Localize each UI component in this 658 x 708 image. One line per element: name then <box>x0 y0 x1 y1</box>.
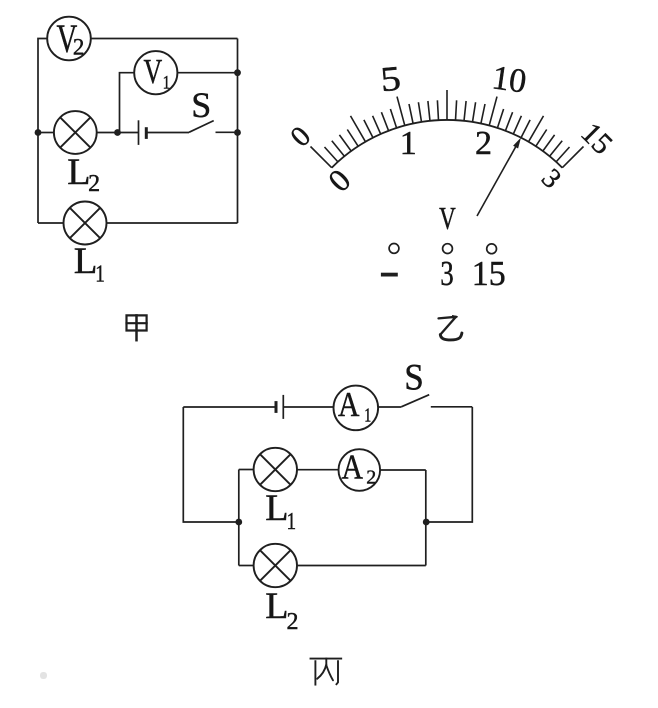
faint scan smudge (decorative) <box>40 672 47 679</box>
label minus terminal <box>381 273 398 277</box>
svg-text:5: 5 <box>379 59 402 100</box>
terminal post (3V) <box>443 244 453 254</box>
svg-text:2: 2 <box>366 467 376 489</box>
svg-text:V: V <box>439 201 456 237</box>
scale label outer 10 <box>490 59 529 100</box>
svg-text:L: L <box>74 241 98 282</box>
label L1 (bing) <box>265 488 296 534</box>
wire: V1 left lead down to mid row <box>120 73 135 133</box>
meter needle <box>477 138 521 217</box>
meter scale tick marks <box>311 90 584 168</box>
terminal post (15V) <box>487 244 497 254</box>
wire: mid row left rail to L2 <box>38 132 54 134</box>
wire: V1 right lead to right rail <box>177 72 237 74</box>
svg-text:L: L <box>67 152 90 192</box>
scale label outer 5 <box>379 59 402 100</box>
scale label inner 3 <box>535 163 567 195</box>
wire: L1 to A2 <box>297 469 339 471</box>
meter scale arc baseline <box>332 120 563 168</box>
wire: jia bottom rail left of L1 <box>38 222 64 224</box>
battery cell (jia): short thick plate <box>145 127 148 139</box>
ammeter A1 <box>334 386 379 431</box>
wire: jia left rail with corners <box>38 39 47 224</box>
switch S (bing): blade <box>401 395 429 407</box>
svg-text:V: V <box>144 53 163 92</box>
wire: jia bottom rail right of L1 <box>107 222 238 224</box>
svg-text:3: 3 <box>440 254 453 293</box>
battery cell (bing): long plate <box>282 395 284 419</box>
wire: L2 row left stub <box>239 565 254 567</box>
wire: battery to switch <box>146 132 189 134</box>
wire: L2 to battery <box>97 132 139 134</box>
switch S (jia): contact segment <box>216 131 238 133</box>
label L1 (jia) <box>74 241 105 287</box>
node: junction dot right (bing) <box>423 519 430 526</box>
wire: battery to ammeter A1 <box>283 406 333 408</box>
svg-text:1: 1 <box>400 125 417 162</box>
svg-text:2: 2 <box>88 171 100 197</box>
svg-text:1: 1 <box>364 404 371 426</box>
svg-text:15: 15 <box>472 254 506 293</box>
label V unit <box>439 201 456 237</box>
wire: bing inner left vertical <box>238 470 240 566</box>
terminal post (minus) <box>389 244 399 254</box>
label L2 (bing) <box>265 586 298 634</box>
voltmeter V2 <box>47 16 91 61</box>
svg-text:S: S <box>191 85 211 125</box>
label 15 terminal <box>472 254 506 293</box>
svg-text:2: 2 <box>475 125 492 162</box>
svg-text:A: A <box>342 448 364 487</box>
lamp L2 <box>54 111 97 154</box>
label L2 (jia) <box>67 152 100 197</box>
svg-text:10: 10 <box>490 59 529 100</box>
wire: bing inner right vertical <box>425 470 427 566</box>
lamp L1 (bing) <box>254 448 297 491</box>
scale label outer 0 <box>284 120 317 153</box>
caption JIA character <box>127 315 147 340</box>
node: junction dot mid row / right rail <box>234 129 241 136</box>
switch S (jia): blade <box>189 121 214 133</box>
lamp L1 <box>64 202 107 245</box>
switch S (bing): contact segment <box>431 406 473 408</box>
svg-text:S: S <box>404 356 424 397</box>
caption BING character <box>311 659 342 685</box>
caption YI character <box>439 316 462 340</box>
node: junction dot left (bing) <box>235 519 242 526</box>
wire: jia top rail <box>91 38 238 40</box>
battery cell (bing): short thick plate <box>275 401 278 413</box>
wire: A1 to switch <box>378 406 401 408</box>
svg-text:2: 2 <box>73 35 85 60</box>
scale label outer 15 <box>574 116 619 161</box>
wire: A2 to inner right vertical <box>380 469 426 471</box>
wire: bing left rail <box>183 407 239 522</box>
svg-text:1: 1 <box>163 72 171 93</box>
ammeter A2 <box>339 448 381 491</box>
svg-text:A: A <box>338 386 360 425</box>
label 3 terminal <box>440 254 453 293</box>
scale label inner 0 <box>321 162 358 199</box>
wire: L2 to inner right vertical <box>297 565 426 567</box>
wire: bing right rail <box>426 407 472 522</box>
label S (jia) <box>191 85 211 125</box>
svg-text:L: L <box>265 488 288 528</box>
svg-text:2: 2 <box>287 609 299 635</box>
wire: jia right rail <box>237 39 239 224</box>
voltmeter V1 <box>134 51 177 94</box>
svg-text:L: L <box>265 586 288 626</box>
node: junction dot V1/right rail <box>234 69 241 76</box>
node: junction dot mid row / V1 branch <box>114 129 121 136</box>
lamp L2 (bing) <box>254 544 297 587</box>
wire: bing top rail to battery <box>183 406 276 408</box>
label S (bing) <box>404 356 424 397</box>
svg-text:1: 1 <box>95 260 105 287</box>
svg-text:1: 1 <box>287 508 297 535</box>
wire: L1 row left stub <box>239 469 254 471</box>
battery cell (jia): long plate <box>138 120 140 145</box>
node: junction dot left rail / mid row <box>35 129 42 136</box>
